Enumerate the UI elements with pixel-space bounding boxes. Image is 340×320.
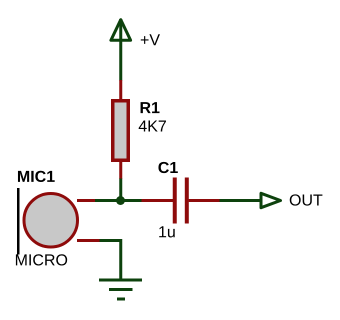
C1 pin 1 lead: [142, 199, 174, 202]
R1 pin 1 lead: [119, 80, 122, 101]
ground symbol: [99, 280, 142, 299]
wire node to C1: [121, 199, 143, 202]
wire R1 to node: [119, 179, 122, 201]
terminal OUT: [261, 193, 281, 207]
label +V: [141, 34, 160, 45]
value 4K7: [139, 120, 166, 131]
label C1: [158, 162, 177, 173]
R1 pin 2 lead: [119, 160, 122, 179]
capacitor C1: [175, 178, 187, 224]
value 1u: [159, 226, 175, 237]
resistor R1: [113, 101, 129, 161]
label OUT: [290, 194, 323, 205]
microphone MIC1: [18, 188, 77, 255]
label R1: [141, 102, 160, 113]
value MICRO: [16, 254, 67, 265]
label MIC1: [18, 171, 55, 182]
wire MIC1 to ground: [100, 241, 121, 282]
wire C1 to OUT: [220, 199, 262, 202]
C1 pin 2 lead: [189, 199, 220, 202]
MIC1 pin + lead: [77, 199, 96, 202]
power symbol +V: [111, 19, 131, 81]
MIC1 pin - lead: [77, 239, 100, 242]
wire MIC1 to node: [95, 199, 121, 202]
node junction: [116, 196, 125, 205]
